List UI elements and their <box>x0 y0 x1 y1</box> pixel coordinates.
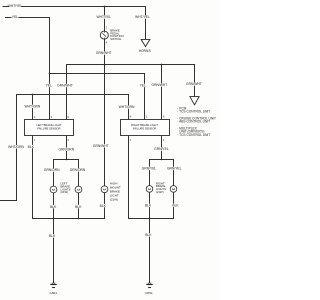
svg-text:HORNS: HORNS <box>139 49 152 53</box>
svg-text:WHT/YEL: WHT/YEL <box>8 4 23 8</box>
bulb right outer <box>170 186 177 193</box>
svg-text:WHT/GRN: WHT/GRN <box>25 105 41 109</box>
wire GRN/WHT rail <box>66 64 195 66</box>
wire BLK right bus to ground <box>149 219 151 283</box>
wire YEL rail <box>50 73 146 75</box>
wire BLK below left inner bulb <box>78 193 80 219</box>
wire BLK left bus to ground <box>53 219 55 283</box>
high mount brake light text <box>110 181 121 201</box>
wire YEL top horizontal <box>5 17 50 19</box>
wire WHT/GRN rail <box>16 94 129 96</box>
wire BLK left box pin 1 to bus <box>32 136 34 219</box>
wire BLK below left outer bulb <box>53 193 55 219</box>
svg-text:BLK: BLK <box>28 145 35 149</box>
wire GRN/YEL split <box>149 159 174 161</box>
wire GRN/WHT to off-page triangle <box>194 65 196 97</box>
svg-text:LEFT BRAKE LIGHT: LEFT BRAKE LIGHT <box>36 123 61 127</box>
svg-text:GRN/ORN: GRN/ORN <box>44 168 60 172</box>
svg-text:(21W): (21W) <box>110 197 118 201</box>
wire GRN/YEL to right inner bulb <box>149 160 151 186</box>
svg-text:· TCS CONTROL UNIT: · TCS CONTROL UNIT <box>177 133 210 137</box>
wire YEL left vertical to pin 3 <box>49 18 51 120</box>
svg-text:YEL: YEL <box>46 84 52 88</box>
svg-text:SWITCH: SWITCH <box>110 37 121 41</box>
svg-text:G551: G551 <box>145 291 153 295</box>
brake pedal position switch circle <box>100 31 108 39</box>
wire WHT/GRN left vertical off-page <box>0 95 17 201</box>
wire WHT/YEL top horizontal <box>3 6 147 8</box>
svg-text:GRN/YEL: GRN/YEL <box>167 167 182 171</box>
right brake lights text <box>156 181 166 194</box>
wire GRN/ORN to left inner bulb <box>78 160 80 187</box>
wire GRN/WHT switch output vertical <box>104 39 106 186</box>
off-page triangle GRN/WHT <box>190 97 199 105</box>
brake pedal position switch text <box>110 29 123 41</box>
wire left ground bus <box>32 218 105 220</box>
svg-text:(21W): (21W) <box>156 190 164 194</box>
wire WHT/YEL vertical to switch <box>104 7 106 32</box>
ground G501 <box>50 283 56 288</box>
bulb high mount <box>101 186 108 193</box>
svg-text:YEL: YEL <box>140 84 146 88</box>
wire YEL right vertical to pin 3 <box>144 74 146 120</box>
wire GRN/WHT to right box pin 6 <box>161 65 163 120</box>
left brake light failure sensor box <box>25 120 74 136</box>
svg-text:RIGHT BRAKE LIGHT: RIGHT BRAKE LIGHT <box>131 123 158 127</box>
svg-text:GRN/WHT: GRN/WHT <box>152 83 168 87</box>
pin numbers <box>34 26 165 142</box>
wire BLK below right inner bulb <box>149 192 151 218</box>
svg-text:BLK: BLK <box>75 205 82 209</box>
wire BLK right box pin 1 to bus <box>128 136 130 219</box>
bulb left outer <box>50 186 57 193</box>
svg-text:(21W): (21W) <box>61 190 69 194</box>
left brake lights text <box>61 182 71 195</box>
svg-text:BLK: BLK <box>172 204 179 208</box>
svg-text:FAILURE SENSOR: FAILURE SENSOR <box>37 127 60 131</box>
svg-text:· TCS CONTROL UNIT: · TCS CONTROL UNIT <box>177 110 210 114</box>
svg-text:BLK: BLK <box>100 204 107 208</box>
right brake light failure sensor title <box>131 123 158 130</box>
svg-text:GRN/ORN: GRN/ORN <box>59 148 75 152</box>
wire GRN/ORN split <box>53 159 79 161</box>
wire BLK below right outer bulb <box>173 192 175 218</box>
wire GRN/WHT to left box pin 6 <box>66 65 68 120</box>
wire labels <box>8 4 202 295</box>
svg-text:GRN/WHT: GRN/WHT <box>186 82 202 86</box>
wire GRN/YEL to right outer bulb <box>173 160 175 186</box>
ground G551 <box>146 283 152 288</box>
wire right ground bus <box>128 218 174 220</box>
svg-text:G501: G501 <box>49 291 57 295</box>
bulb right inner <box>146 186 153 193</box>
white gaps for wire labels <box>9 4 200 237</box>
svg-text:GRN/WHT: GRN/WHT <box>57 84 73 88</box>
svg-text:GRN/YEL: GRN/YEL <box>142 167 157 171</box>
svg-text:GRN/YEL: GRN/YEL <box>154 147 169 151</box>
svg-text:WHT/YEL: WHT/YEL <box>96 15 111 19</box>
svg-text:YEL: YEL <box>12 15 18 19</box>
svg-text:GRN/ORN: GRN/ORN <box>70 168 86 172</box>
destination list <box>177 106 216 136</box>
svg-text:WHT/GRN: WHT/GRN <box>8 145 24 149</box>
svg-text:· ABS CONTROL UNIT: · ABS CONTROL UNIT <box>177 120 210 124</box>
svg-text:FAILURE SENSOR: FAILURE SENSOR <box>133 126 156 130</box>
wire GRN/ORN to left outer bulb <box>53 160 55 187</box>
svg-text:BLK: BLK <box>50 205 57 209</box>
right brake light failure sensor box <box>121 120 170 136</box>
wire GRN/YEL right box pin 2 <box>161 136 163 160</box>
bulb left inner <box>75 186 82 193</box>
svg-text:BLK: BLK <box>49 234 56 238</box>
wire WHT/GRN to left box pin 4 <box>32 95 34 120</box>
wire GRN/ORN left box pin 2 <box>66 136 68 160</box>
svg-text:WHT/GRN: WHT/GRN <box>119 105 135 109</box>
wire BLK below high mount bulb <box>104 193 106 219</box>
wire WHT/GRN to right box pin 4 <box>128 95 130 120</box>
svg-text:BLK: BLK <box>145 204 152 208</box>
left brake light failure sensor title <box>36 123 61 131</box>
svg-text:WHT/YEL: WHT/YEL <box>135 15 150 19</box>
wire WHT/YEL vertical to horns <box>145 7 147 40</box>
horns triangle <box>141 39 150 46</box>
svg-text:GRN/WHT: GRN/WHT <box>96 51 112 55</box>
svg-text:BLK: BLK <box>145 233 152 237</box>
svg-text:GRN/WHT: GRN/WHT <box>93 144 109 148</box>
